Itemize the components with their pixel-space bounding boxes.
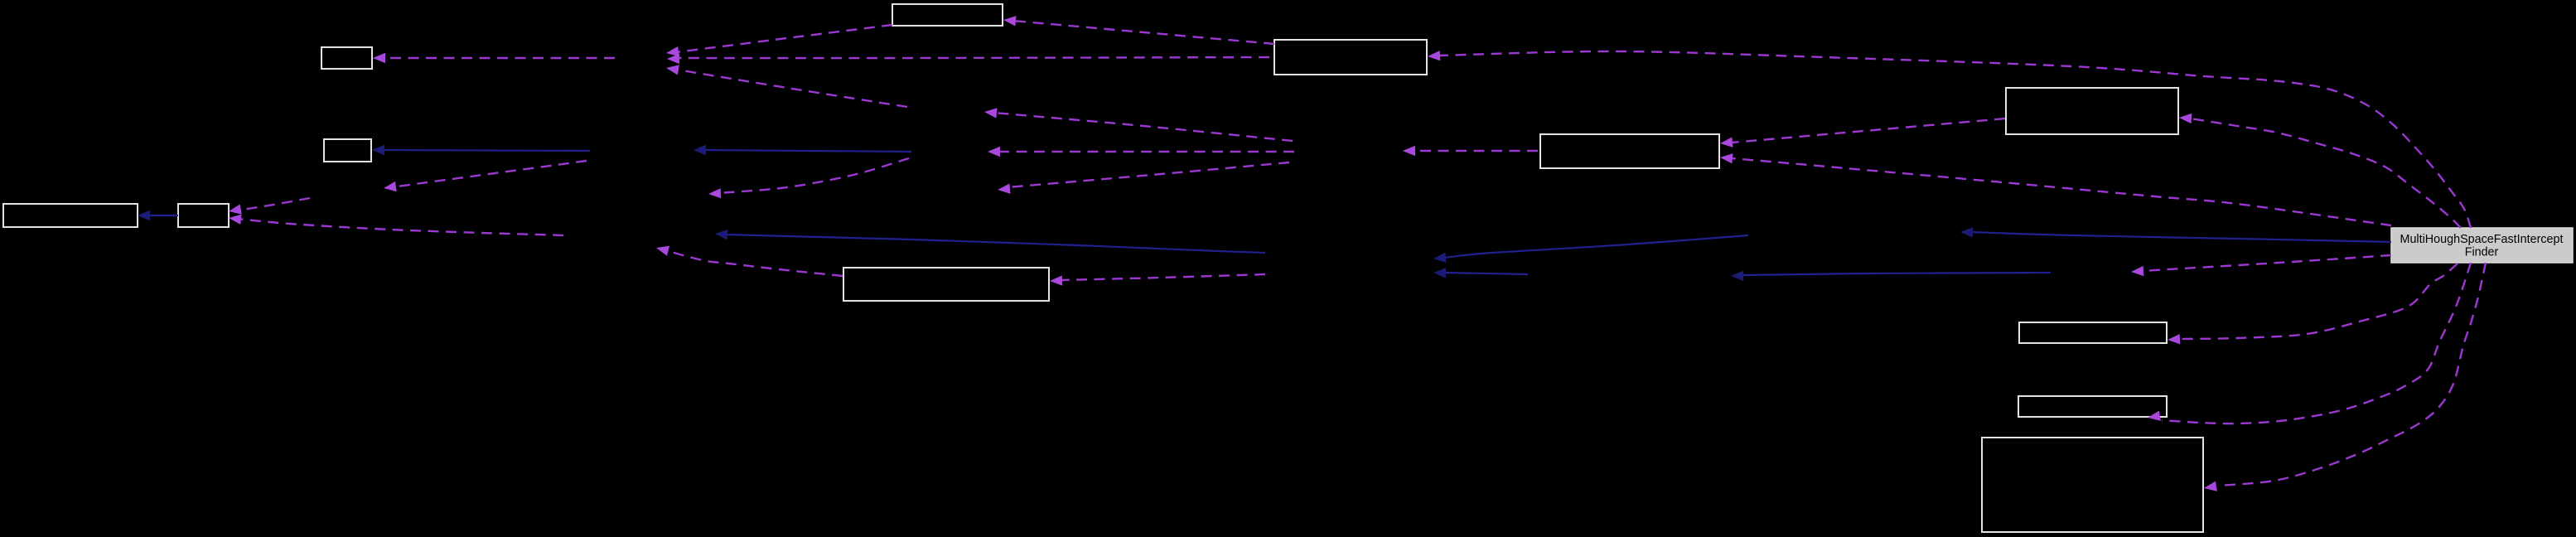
node box B11 (right class) xyxy=(2018,396,2167,417)
dashed curve main to B7 xyxy=(2179,114,2461,228)
dashed curve B9 to hidden node (tip x=792) xyxy=(656,246,843,276)
node box B8 (center class) xyxy=(1540,134,1719,168)
main node MultiHoughSpaceFastInterceptFinder xyxy=(2391,228,2573,263)
node box B10 (right class) xyxy=(2019,322,2167,343)
dashed edge B7 to B8 (upper) xyxy=(1720,119,2005,148)
dashed edge into B4 lower (long) xyxy=(229,215,563,235)
dashed edge into B4 upper xyxy=(229,198,310,215)
blue solid edge from main node to arrow at x=2366 xyxy=(1960,227,2391,242)
node box B9 (lower-center class) xyxy=(843,268,1049,301)
dashed edge B8 to hidden node N2 xyxy=(1403,146,1538,156)
dashed edge into N3 middle (horizontal y=183) xyxy=(988,147,1294,157)
dashed curve main to B12 xyxy=(2204,263,2486,491)
dashed edge into N3 upper (from x=1560) xyxy=(984,108,1293,141)
blue solid edge segment with arrow at x=837 xyxy=(694,145,911,155)
blue solid edge from x=2475 to arrow at x=2089 xyxy=(1731,271,2051,281)
dashed curved edge beta into tip x=855 xyxy=(708,158,909,198)
node box B12 (bottom-right large class) xyxy=(1982,438,2203,532)
node box B1 (top-left small class) xyxy=(321,47,372,69)
svg-text:MultiHoughSpaceFastIntercept: MultiHoughSpaceFastIntercept xyxy=(2400,233,2564,246)
dashed edge alpha into tip x=463 xyxy=(384,161,587,191)
blue solid edge from x=2110 to arrow at x=1730 (upper) xyxy=(1433,235,1748,263)
blue solid short edge to arrow at x=1730 (lower) xyxy=(1433,268,1528,278)
dashed long curve main to B6 xyxy=(1428,51,2471,228)
node box B3 (far-left wide class) xyxy=(3,204,138,227)
blue solid edge into B2 from hidden node xyxy=(372,145,590,155)
dashed edge B5 to hidden node N1 xyxy=(666,25,892,56)
dashed edge into N3 lower (from x=1556) xyxy=(998,162,1289,194)
blue solid edge: B4 to B3 xyxy=(138,210,178,220)
svg-text:Finder: Finder xyxy=(2465,246,2499,259)
dashed edge main to hidden node NY xyxy=(2131,255,2391,276)
dashed edge B6 to hidden node N1 (horizontal) xyxy=(667,54,1269,64)
dashed curve main to B10 xyxy=(2168,264,2458,344)
node box B4 (left small class) xyxy=(178,204,229,227)
dashed edge from hidden node N1 descending right xyxy=(666,65,907,107)
dashed edge into B1 (horizontal) xyxy=(373,53,615,63)
blue solid curve from hidden node x=1527 to arrow at x=863 xyxy=(715,230,1265,253)
node box B7 (upper-right class) xyxy=(2006,88,2178,134)
node box B6 (upper-center class) xyxy=(1274,40,1427,75)
dashed edge B6 to B5 xyxy=(1003,16,1274,44)
dashed edge N4 to B9 xyxy=(1050,274,1265,286)
dashed curve main to B11 xyxy=(2148,263,2471,423)
node box B5 (top-center class) xyxy=(892,4,1003,26)
dashed curved edge main to B8 (lower) xyxy=(1720,153,2391,225)
node box B2 (left small class) xyxy=(324,139,371,162)
